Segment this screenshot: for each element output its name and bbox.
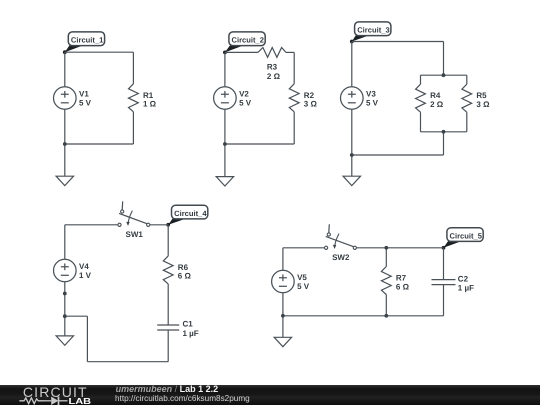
svg-text:SW2: SW2 <box>332 253 350 262</box>
wire circuit5 left upper <box>282 248 284 270</box>
svg-text:R4: R4 <box>430 91 441 100</box>
svg-text:C2: C2 <box>458 274 469 283</box>
CircuitLab logo <box>0 385 130 405</box>
logo diode <box>51 396 58 404</box>
svg-text:R1: R1 <box>143 91 154 100</box>
wire circuit4 switch to node <box>150 224 168 226</box>
switch SW2 <box>325 224 357 261</box>
svg-text:6 Ω: 6 Ω <box>396 282 410 291</box>
logo resistor squiggle <box>19 397 44 403</box>
resistor R5 3ohm <box>462 84 490 112</box>
wire circuit3 left lower to ground <box>351 109 353 176</box>
ground circuit3 <box>343 176 360 185</box>
footer bar <box>0 385 540 405</box>
wire circuit4 C1 to bottom <box>167 330 169 362</box>
svg-text:5 V: 5 V <box>79 98 92 107</box>
wire circuit3 center upper <box>443 42 445 76</box>
wire circuit1 right lower <box>132 112 134 144</box>
ground circuit1 <box>56 176 73 185</box>
wire circuit3 R4 stub bottom <box>420 112 422 132</box>
wire circuit3 R5 stub bottom <box>466 112 468 132</box>
capacitor C1 1uF <box>157 320 199 338</box>
svg-text:V1: V1 <box>79 90 89 99</box>
wire circuit4 left upper <box>64 225 66 259</box>
svg-text:1 Ω: 1 Ω <box>143 100 157 109</box>
junction circuit3 bottom node <box>350 153 354 157</box>
wire circuit1 right upper <box>132 52 134 84</box>
label Circuit_2 <box>223 32 265 54</box>
ground circuit4 <box>56 336 73 345</box>
wire circuit5 right lower <box>443 285 445 316</box>
svg-text:V3: V3 <box>366 90 376 99</box>
wire circuit4 R6 to C1 <box>167 284 169 325</box>
wire circuit2 right upper <box>293 52 295 83</box>
junction circuit5 top node <box>384 246 388 250</box>
wire circuit4 left riser <box>86 316 88 362</box>
junction circuit4 V4 minus node <box>63 292 67 296</box>
svg-text:1 V: 1 V <box>79 271 92 280</box>
svg-text:Circuit_1: Circuit_1 <box>71 36 104 45</box>
svg-text:6 Ω: 6 Ω <box>178 272 192 281</box>
voltage source V3 5V <box>341 87 379 110</box>
wire circuit2 left lower to ground <box>224 109 226 176</box>
wire circuit5 right upper <box>443 248 445 280</box>
wire circuit4 left lower to ground <box>64 282 66 336</box>
svg-text:Circuit_4: Circuit_4 <box>174 209 207 218</box>
wire circuit4 to ground node <box>65 315 88 317</box>
svg-text:R3: R3 <box>267 63 278 72</box>
wire circuit4 top left to switch <box>65 224 118 226</box>
svg-text:SW1: SW1 <box>126 230 144 239</box>
wire circuit4 bottom <box>87 361 168 363</box>
wire circuit3 left upper <box>351 42 353 87</box>
wire circuit3 center lower <box>443 132 445 155</box>
svg-text:1 µF: 1 µF <box>183 329 199 338</box>
wire circuit5 R7 stub bottom <box>385 295 387 316</box>
svg-text:R6: R6 <box>178 263 189 272</box>
junction circuit5 ground node <box>281 314 285 318</box>
wire circuit5 left lower to ground <box>282 293 284 338</box>
voltage source V2 5V <box>214 87 252 110</box>
junction circuit3 rail bottom node <box>442 130 446 134</box>
junction circuit5 bottom node <box>384 314 388 318</box>
junction circuit3 rail top node <box>442 73 446 77</box>
wire circuit2 bottom <box>225 143 294 145</box>
svg-text:5 V: 5 V <box>297 282 310 291</box>
junction circuit1 bottom node <box>63 142 67 146</box>
wire circuit1 bottom <box>65 143 134 145</box>
svg-text:V5: V5 <box>297 273 307 282</box>
svg-text:5 V: 5 V <box>239 98 252 107</box>
label Circuit_4 <box>166 205 208 227</box>
wire circuit5 switch to C2 node <box>357 247 444 249</box>
svg-text:LAB: LAB <box>68 397 91 405</box>
svg-text:V4: V4 <box>79 262 89 271</box>
resistor R1 1ohm <box>129 84 157 112</box>
resistor R3 2ohm <box>258 48 286 81</box>
svg-text:C1: C1 <box>183 320 194 329</box>
wire circuit3 R4 stub top <box>420 75 422 84</box>
wire circuit5 top left to switch <box>283 247 325 249</box>
resistor R6 6ohm <box>163 256 191 284</box>
wire circuit4 right upper <box>167 225 169 256</box>
wire circuit3 parallel bottom rail <box>421 131 467 133</box>
wire circuit3 R5 stub top <box>466 75 468 84</box>
wire circuit2 left upper <box>224 52 226 86</box>
svg-text:5 V: 5 V <box>366 98 379 107</box>
svg-text:3 Ω: 3 Ω <box>304 100 318 109</box>
svg-text:Circuit_5: Circuit_5 <box>450 231 483 240</box>
wire circuit3 bottom <box>352 154 444 156</box>
svg-text:V2: V2 <box>239 90 249 99</box>
label Circuit_3 <box>350 22 391 43</box>
wire circuit3 top <box>352 41 444 43</box>
svg-text:2 Ω: 2 Ω <box>267 72 281 81</box>
junction circuit4 ground node <box>63 314 67 318</box>
wire circuit2 top left <box>225 51 258 53</box>
ground circuit2 <box>216 177 233 186</box>
voltage source V5 5V <box>272 270 310 293</box>
resistor R7 6ohm <box>381 267 409 295</box>
wire circuit2 top right <box>286 51 294 53</box>
svg-text:3 Ω: 3 Ω <box>476 100 490 109</box>
junction circuit2 bottom node <box>223 142 227 146</box>
wire circuit5 R7 stub top <box>385 248 387 267</box>
switch SW1 <box>118 201 150 239</box>
resistor R2 3ohm <box>289 84 317 112</box>
wire circuit1 left lower to ground <box>64 109 66 176</box>
svg-text:2 Ω: 2 Ω <box>430 100 444 109</box>
ground circuit5 <box>274 337 291 346</box>
svg-text:R2: R2 <box>304 91 315 100</box>
wire circuit1 left upper <box>64 52 66 86</box>
svg-text:Circuit_2: Circuit_2 <box>232 36 265 45</box>
resistor R4 2ohm <box>416 84 444 112</box>
wire circuit2 right lower <box>293 112 295 144</box>
wire circuit1 top <box>65 51 134 53</box>
capacitor C2 1uF <box>432 274 475 292</box>
wire circuit5 bottom <box>283 315 444 317</box>
svg-text:Circuit_3: Circuit_3 <box>357 26 390 35</box>
label Circuit_5 <box>442 228 484 250</box>
svg-text:R5: R5 <box>476 91 487 100</box>
svg-text:R7: R7 <box>396 274 407 283</box>
label Circuit_1 <box>63 32 105 54</box>
voltage source V1 5V <box>54 87 92 110</box>
svg-text:1 µF: 1 µF <box>458 283 474 292</box>
voltage source V4 1V <box>54 259 92 282</box>
wire circuit3 parallel top rail <box>421 74 467 76</box>
